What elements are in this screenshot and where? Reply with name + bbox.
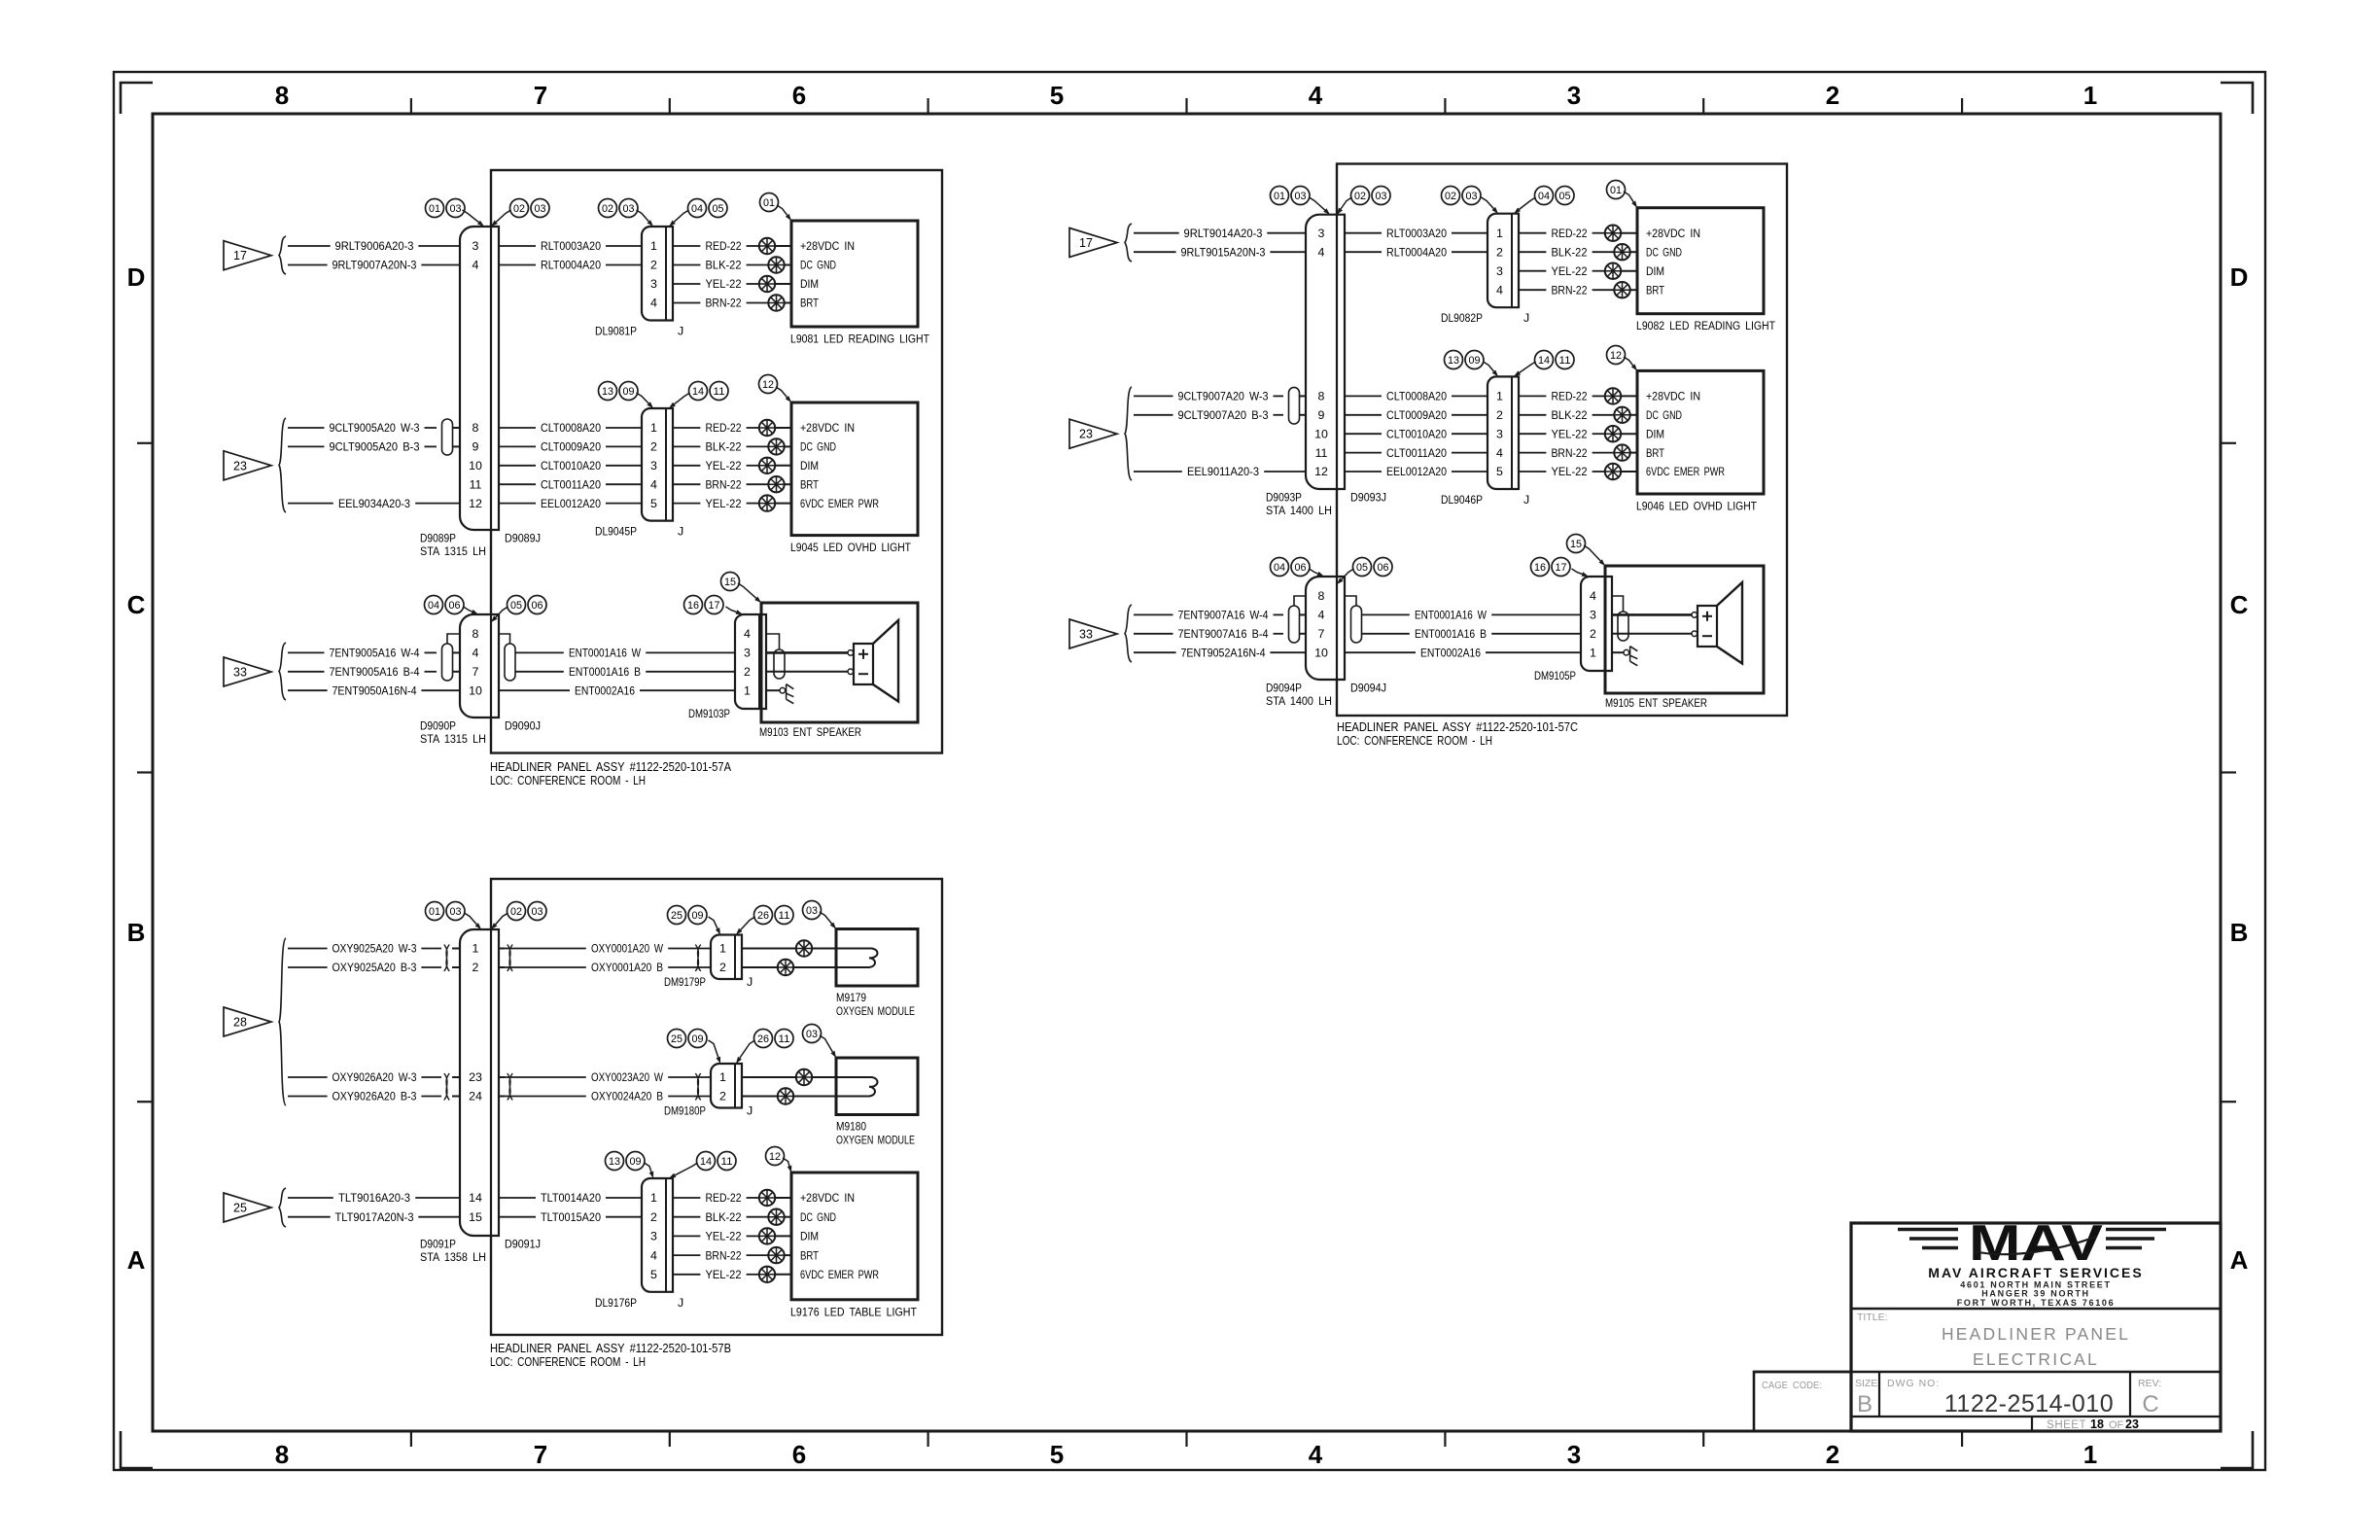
svg-text:17: 17 (709, 600, 720, 612)
svg-text:4: 4 (1318, 609, 1325, 622)
svg-text:4: 4 (472, 647, 479, 660)
svg-text:DIM: DIM (800, 277, 819, 291)
svg-text:D9091J: D9091J (505, 1238, 541, 1251)
svg-text:09: 09 (1469, 355, 1481, 367)
svg-text:01: 01 (1610, 185, 1622, 196)
svg-text:33: 33 (233, 666, 247, 680)
svg-text:HEADLINER PANEL ASSY #1122-252: HEADLINER PANEL ASSY #1122-2520-101-57B (490, 1341, 731, 1355)
svg-text:01: 01 (429, 906, 440, 918)
svg-text:16: 16 (687, 600, 699, 612)
svg-text:D: D (2230, 262, 2249, 292)
svg-text:OXY9025A20 W-3: OXY9025A20 W-3 (332, 942, 417, 956)
svg-text:BLK-22: BLK-22 (706, 440, 742, 454)
svg-text:6VDC EMER PWR: 6VDC EMER PWR (1646, 465, 1725, 478)
svg-text:11: 11 (1315, 446, 1328, 460)
svg-text:STA 1315 LH: STA 1315 LH (420, 544, 486, 558)
svg-text:11: 11 (779, 910, 790, 922)
svg-text:EEL9034A20-3: EEL9034A20-3 (338, 497, 410, 510)
svg-text:D9093P: D9093P (1266, 491, 1302, 505)
svg-text:13: 13 (609, 1156, 620, 1168)
svg-text:17: 17 (1556, 562, 1567, 574)
svg-text:5: 5 (650, 497, 657, 510)
svg-text:11: 11 (1559, 355, 1571, 367)
svg-text:DC GND: DC GND (800, 1210, 836, 1224)
svg-text:7: 7 (534, 81, 547, 110)
svg-text:23: 23 (469, 1070, 482, 1084)
svg-text:CAGE CODE:: CAGE CODE: (1762, 1381, 1822, 1391)
svg-text:L9046 LED OVHD LIGHT: L9046 LED OVHD LIGHT (1636, 500, 1757, 513)
svg-text:12: 12 (1314, 465, 1328, 478)
svg-text:DM9179P: DM9179P (664, 975, 706, 989)
svg-text:M9105 ENT SPEAKER: M9105 ENT SPEAKER (1605, 696, 1707, 710)
svg-text:BRT: BRT (800, 297, 819, 310)
svg-text:CLT0010A20: CLT0010A20 (541, 459, 601, 472)
svg-text:4: 4 (1590, 589, 1596, 603)
svg-text:OXY0001A20 B: OXY0001A20 B (591, 961, 663, 974)
svg-text:OXY9026A20 W-3: OXY9026A20 W-3 (332, 1070, 417, 1084)
svg-text:28: 28 (233, 1016, 247, 1030)
svg-text:BRN-22: BRN-22 (706, 1248, 742, 1262)
svg-text:J: J (1523, 493, 1529, 507)
svg-text:2: 2 (1496, 245, 1503, 259)
svg-text:C: C (2230, 590, 2249, 619)
svg-text:J: J (1523, 311, 1529, 325)
svg-text:BLK-22: BLK-22 (1552, 245, 1588, 259)
svg-text:C: C (127, 590, 146, 619)
svg-text:8: 8 (472, 627, 479, 641)
svg-text:05: 05 (1559, 191, 1571, 202)
svg-text:3: 3 (1567, 81, 1581, 110)
svg-text:D9090P: D9090P (420, 719, 456, 733)
svg-text:2: 2 (650, 259, 657, 272)
svg-text:3: 3 (1318, 227, 1325, 240)
svg-text:2: 2 (1826, 1440, 1839, 1469)
svg-text:BLK-22: BLK-22 (706, 1210, 742, 1224)
svg-text:3: 3 (744, 647, 751, 660)
svg-text:3: 3 (1496, 427, 1503, 440)
svg-text:BRT: BRT (800, 477, 819, 491)
svg-text:DIM: DIM (1646, 427, 1664, 440)
svg-text:1: 1 (650, 239, 657, 253)
svg-text:J: J (678, 525, 683, 539)
svg-text:MAV: MAV (1969, 1215, 2103, 1272)
svg-text:B: B (1857, 1391, 1872, 1417)
svg-text:D9089P: D9089P (420, 532, 456, 545)
svg-text:+28VDC IN: +28VDC IN (800, 239, 855, 253)
svg-text:OXY9026A20 B-3: OXY9026A20 B-3 (332, 1090, 417, 1103)
svg-text:CLT0011A20: CLT0011A20 (1386, 446, 1447, 460)
svg-text:CLT0009A20: CLT0009A20 (1386, 408, 1447, 422)
svg-text:3: 3 (650, 1230, 657, 1243)
svg-text:M9180: M9180 (836, 1120, 866, 1134)
svg-text:05: 05 (1356, 562, 1368, 574)
svg-text:LOC: CONFERENCE ROOM - LH: LOC: CONFERENCE ROOM - LH (1337, 733, 1492, 748)
svg-text:2: 2 (1590, 627, 1596, 641)
svg-text:EEL9011A20-3: EEL9011A20-3 (1187, 465, 1259, 478)
svg-text:23: 23 (2125, 1417, 2139, 1431)
svg-text:04: 04 (1274, 562, 1285, 574)
svg-text:OXYGEN MODULE: OXYGEN MODULE (836, 1004, 915, 1018)
svg-text:OXY0001A20 W: OXY0001A20 W (591, 942, 663, 956)
svg-text:RLT0004A20: RLT0004A20 (541, 259, 601, 272)
svg-text:ENT0001A16 W: ENT0001A16 W (1415, 609, 1487, 622)
svg-text:9CLT9005A20 B-3: 9CLT9005A20 B-3 (330, 440, 420, 454)
svg-text:1: 1 (719, 1070, 726, 1084)
svg-text:+28VDC IN: +28VDC IN (1646, 390, 1700, 403)
svg-text:ELECTRICAL: ELECTRICAL (1973, 1349, 2099, 1369)
svg-text:06: 06 (1378, 562, 1389, 574)
svg-text:DL9176P: DL9176P (595, 1296, 637, 1310)
svg-text:2: 2 (1496, 408, 1503, 422)
svg-text:9RLT9006A20-3: 9RLT9006A20-3 (335, 239, 414, 253)
svg-text:12: 12 (769, 1151, 781, 1163)
svg-text:06: 06 (1295, 562, 1307, 574)
svg-text:YEL-22: YEL-22 (1552, 427, 1588, 440)
svg-text:L9081 LED READING LIGHT: L9081 LED READING LIGHT (790, 332, 929, 346)
svg-text:03: 03 (1376, 191, 1387, 202)
svg-text:33: 33 (1079, 628, 1093, 642)
svg-text:D9094P: D9094P (1266, 682, 1302, 695)
svg-text:DIM: DIM (800, 459, 819, 472)
svg-text:02: 02 (510, 906, 522, 918)
svg-text:OF: OF (2109, 1419, 2124, 1431)
svg-text:A: A (127, 1245, 146, 1275)
svg-text:TLT0014A20: TLT0014A20 (541, 1191, 601, 1205)
svg-text:L9176 LED TABLE LIGHT: L9176 LED TABLE LIGHT (790, 1305, 917, 1318)
svg-text:9RLT9014A20-3: 9RLT9014A20-3 (1184, 227, 1263, 240)
svg-text:STA 1315 LH: STA 1315 LH (420, 732, 486, 746)
svg-text:03: 03 (532, 906, 543, 918)
svg-text:1: 1 (744, 683, 751, 697)
svg-text:5: 5 (650, 1268, 657, 1281)
svg-text:2: 2 (719, 961, 726, 974)
svg-text:3: 3 (472, 239, 479, 253)
svg-text:9: 9 (1318, 408, 1325, 422)
svg-text:7ENT9005A16 W-4: 7ENT9005A16 W-4 (330, 647, 420, 660)
svg-text:04: 04 (428, 600, 439, 612)
svg-text:+28VDC IN: +28VDC IN (1646, 227, 1700, 240)
svg-text:02: 02 (513, 203, 525, 215)
svg-text:1: 1 (1590, 646, 1596, 659)
svg-text:13: 13 (602, 386, 613, 398)
svg-text:2: 2 (744, 665, 751, 679)
svg-text:OXY0023A20 W: OXY0023A20 W (591, 1070, 663, 1084)
svg-text:18: 18 (2090, 1417, 2104, 1431)
svg-text:09: 09 (692, 1033, 704, 1045)
svg-text:8: 8 (472, 421, 479, 435)
svg-text:YEL-22: YEL-22 (706, 497, 742, 510)
svg-text:06: 06 (449, 600, 461, 612)
svg-text:25: 25 (671, 910, 682, 922)
svg-text:DM9180P: DM9180P (664, 1104, 706, 1118)
svg-text:11: 11 (714, 386, 725, 398)
svg-text:5: 5 (1050, 81, 1064, 110)
svg-text:13: 13 (1448, 355, 1459, 367)
svg-text:26: 26 (757, 1033, 769, 1045)
svg-text:4: 4 (1496, 283, 1503, 297)
svg-text:D9090J: D9090J (505, 719, 541, 733)
svg-text:11: 11 (470, 477, 482, 491)
svg-text:03: 03 (450, 906, 462, 918)
svg-text:03: 03 (1466, 191, 1478, 202)
svg-text:LOC: CONFERENCE ROOM - LH: LOC: CONFERENCE ROOM - LH (490, 773, 646, 787)
svg-text:3: 3 (1590, 609, 1596, 622)
svg-text:HEADLINER PANEL: HEADLINER PANEL (1942, 1324, 2130, 1344)
svg-text:CLT0008A20: CLT0008A20 (541, 421, 601, 435)
svg-text:10: 10 (469, 459, 482, 472)
svg-text:6: 6 (792, 81, 806, 110)
svg-text:05: 05 (713, 203, 724, 215)
svg-text:B: B (2230, 918, 2249, 947)
svg-text:STA 1400 LH: STA 1400 LH (1266, 694, 1332, 708)
svg-text:A: A (2230, 1245, 2249, 1275)
svg-text:J: J (747, 1104, 752, 1118)
svg-text:12: 12 (469, 497, 482, 510)
svg-text:RED-22: RED-22 (706, 421, 742, 435)
svg-text:2: 2 (719, 1090, 726, 1103)
svg-text:OXY9025A20 B-3: OXY9025A20 B-3 (332, 961, 417, 974)
svg-text:04: 04 (691, 203, 703, 215)
svg-text:4: 4 (650, 1248, 657, 1262)
svg-text:BLK-22: BLK-22 (1552, 408, 1588, 422)
svg-text:7ENT9007A16 W-4: 7ENT9007A16 W-4 (1178, 609, 1269, 622)
svg-text:5: 5 (1050, 1440, 1064, 1469)
svg-text:B: B (127, 918, 146, 947)
svg-text:03: 03 (623, 203, 635, 215)
svg-text:25: 25 (233, 1202, 247, 1215)
svg-text:L9082 LED READING LIGHT: L9082 LED READING LIGHT (1636, 319, 1775, 332)
svg-text:4: 4 (744, 627, 751, 641)
svg-text:11: 11 (721, 1156, 733, 1168)
svg-text:DC GND: DC GND (800, 259, 836, 272)
svg-text:9CLT9007A20 W-3: 9CLT9007A20 W-3 (1178, 390, 1269, 403)
svg-text:D: D (127, 262, 146, 292)
svg-text:8: 8 (1318, 589, 1325, 603)
svg-text:15: 15 (724, 577, 736, 588)
svg-text:03: 03 (535, 203, 546, 215)
svg-text:17: 17 (1079, 236, 1093, 250)
svg-text:J: J (747, 975, 752, 989)
svg-text:CLT0008A20: CLT0008A20 (1386, 390, 1447, 403)
svg-text:1: 1 (719, 942, 726, 956)
svg-text:SHEET: SHEET (2047, 1419, 2086, 1431)
svg-text:14: 14 (469, 1191, 482, 1205)
svg-text:1: 1 (650, 421, 657, 435)
svg-text:OXY0024A20 B: OXY0024A20 B (591, 1090, 663, 1103)
svg-text:YEL-22: YEL-22 (706, 1230, 742, 1243)
svg-text:3: 3 (650, 277, 657, 291)
svg-text:9RLT9015A20N-3: 9RLT9015A20N-3 (1181, 245, 1266, 259)
svg-text:7ENT9052A16N-4: 7ENT9052A16N-4 (1181, 646, 1266, 659)
svg-text:STA 1358 LH: STA 1358 LH (420, 1250, 486, 1264)
svg-text:BRN-22: BRN-22 (1552, 446, 1588, 460)
svg-text:ENT0002A16: ENT0002A16 (575, 683, 635, 697)
svg-text:D9089J: D9089J (505, 532, 541, 545)
svg-text:CLT0009A20: CLT0009A20 (541, 440, 601, 454)
svg-text:DIM: DIM (1646, 264, 1664, 278)
svg-text:C: C (2142, 1391, 2158, 1417)
svg-text:EEL0012A20: EEL0012A20 (541, 497, 601, 510)
svg-text:D9094J: D9094J (1350, 682, 1386, 695)
svg-text:RLT0004A20: RLT0004A20 (1386, 245, 1447, 259)
svg-text:DIM: DIM (800, 1230, 819, 1243)
svg-text:4: 4 (1318, 245, 1325, 259)
svg-text:03: 03 (1295, 191, 1307, 202)
svg-text:4: 4 (650, 297, 657, 310)
svg-text:DWG NO:: DWG NO: (1887, 1378, 1940, 1389)
svg-text:TITLE:: TITLE: (1857, 1312, 1888, 1323)
svg-text:L9045 LED OVHD LIGHT: L9045 LED OVHD LIGHT (790, 541, 911, 554)
svg-text:DL9046P: DL9046P (1441, 493, 1483, 507)
svg-text:9RLT9007A20N-3: 9RLT9007A20N-3 (332, 259, 417, 272)
svg-text:HEADLINER PANEL ASSY #1122-252: HEADLINER PANEL ASSY #1122-2520-101-57C (1337, 719, 1578, 734)
svg-text:BRT: BRT (1646, 446, 1664, 460)
svg-text:RED-22: RED-22 (706, 1191, 742, 1205)
svg-text:ENT0001A16 B: ENT0001A16 B (569, 665, 641, 679)
svg-text:RED-22: RED-22 (1552, 390, 1588, 403)
svg-text:2: 2 (472, 961, 479, 974)
svg-text:23: 23 (233, 459, 247, 472)
svg-text:DC GND: DC GND (1646, 408, 1682, 422)
svg-text:DC GND: DC GND (1646, 245, 1682, 259)
svg-text:D9091P: D9091P (420, 1238, 456, 1251)
svg-text:BRN-22: BRN-22 (1552, 283, 1588, 297)
svg-text:YEL-22: YEL-22 (706, 459, 742, 472)
svg-text:RLT0003A20: RLT0003A20 (541, 239, 601, 253)
svg-text:09: 09 (692, 910, 704, 922)
svg-text:M9103 ENT SPEAKER: M9103 ENT SPEAKER (759, 725, 861, 739)
svg-text:02: 02 (1354, 191, 1366, 202)
svg-text:HEADLINER PANEL ASSY #1122-252: HEADLINER PANEL ASSY #1122-2520-101-57A (490, 759, 731, 774)
svg-text:RED-22: RED-22 (1552, 227, 1588, 240)
svg-text:LOC: CONFERENCE ROOM - LH: LOC: CONFERENCE ROOM - LH (490, 1354, 646, 1369)
svg-text:MAV AIRCRAFT SERVICES: MAV AIRCRAFT SERVICES (1928, 1265, 2143, 1280)
svg-text:03: 03 (806, 905, 818, 917)
svg-text:DC GND: DC GND (800, 440, 836, 454)
svg-text:1: 1 (472, 942, 479, 956)
svg-text:14: 14 (1538, 355, 1550, 367)
svg-text:01: 01 (429, 203, 440, 215)
svg-text:1: 1 (2083, 1440, 2097, 1469)
svg-text:3: 3 (650, 459, 657, 472)
svg-text:J: J (678, 1296, 683, 1310)
svg-text:ENT0001A16 B: ENT0001A16 B (1415, 627, 1487, 641)
svg-text:7: 7 (472, 665, 479, 679)
svg-text:16: 16 (1534, 562, 1546, 574)
svg-text:05: 05 (510, 600, 522, 612)
svg-text:BRN-22: BRN-22 (706, 297, 742, 310)
svg-text:D9093J: D9093J (1350, 491, 1386, 505)
svg-text:1: 1 (2083, 81, 2097, 110)
svg-text:RLT0003A20: RLT0003A20 (1386, 227, 1447, 240)
svg-text:2: 2 (650, 1210, 657, 1224)
svg-text:9CLT9007A20 B-3: 9CLT9007A20 B-3 (1178, 408, 1269, 422)
svg-text:12: 12 (762, 379, 774, 391)
svg-text:10: 10 (1314, 646, 1328, 659)
svg-text:2: 2 (650, 440, 657, 454)
svg-text:REV:: REV: (2138, 1378, 2161, 1389)
svg-text:RED-22: RED-22 (706, 239, 742, 253)
svg-text:03: 03 (450, 203, 462, 215)
svg-text:EEL0012A20: EEL0012A20 (1386, 465, 1447, 478)
svg-text:10: 10 (469, 683, 482, 697)
svg-text:14: 14 (692, 386, 704, 398)
svg-text:9: 9 (472, 440, 479, 454)
svg-text:15: 15 (469, 1210, 482, 1224)
svg-text:CLT0010A20: CLT0010A20 (1386, 427, 1447, 440)
svg-text:YEL-22: YEL-22 (1552, 465, 1588, 478)
svg-text:M9179: M9179 (836, 991, 866, 1004)
svg-text:6VDC EMER PWR: 6VDC EMER PWR (800, 497, 879, 510)
svg-text:8: 8 (275, 81, 289, 110)
svg-text:ENT0001A16 W: ENT0001A16 W (569, 647, 641, 660)
svg-text:DL9082P: DL9082P (1441, 311, 1483, 325)
svg-text:9CLT9005A20 W-3: 9CLT9005A20 W-3 (330, 421, 420, 435)
svg-text:09: 09 (623, 386, 635, 398)
svg-text:1: 1 (650, 1191, 657, 1205)
svg-text:1122-2514-010: 1122-2514-010 (1944, 1390, 2114, 1417)
svg-text:J: J (678, 325, 683, 338)
svg-text:04: 04 (1538, 191, 1550, 202)
svg-text:DL9081P: DL9081P (595, 325, 637, 338)
svg-text:YEL-22: YEL-22 (706, 277, 742, 291)
svg-text:7ENT9007A16 B-4: 7ENT9007A16 B-4 (1178, 627, 1269, 641)
svg-text:ENT0002A16: ENT0002A16 (1420, 646, 1481, 659)
svg-text:25: 25 (671, 1033, 682, 1045)
svg-text:5: 5 (1496, 465, 1503, 478)
svg-text:BLK-22: BLK-22 (706, 259, 742, 272)
svg-text:+28VDC IN: +28VDC IN (800, 1191, 855, 1205)
svg-text:17: 17 (233, 249, 247, 262)
svg-text:DM9103P: DM9103P (688, 707, 730, 720)
svg-text:26: 26 (757, 910, 769, 922)
svg-text:6VDC EMER PWR: 6VDC EMER PWR (800, 1268, 879, 1281)
svg-text:2: 2 (1826, 81, 1839, 110)
svg-text:DM9105P: DM9105P (1534, 669, 1576, 682)
svg-text:03: 03 (806, 1029, 818, 1040)
svg-text:01: 01 (1274, 191, 1285, 202)
svg-text:SIZE: SIZE (1855, 1378, 1877, 1389)
svg-text:3: 3 (1567, 1440, 1581, 1469)
svg-text:CLT0011A20: CLT0011A20 (541, 477, 601, 491)
svg-text:DL9045P: DL9045P (595, 525, 637, 539)
svg-text:BRT: BRT (800, 1248, 819, 1262)
svg-text:06: 06 (532, 600, 543, 612)
svg-text:02: 02 (1445, 191, 1456, 202)
svg-text:STA 1400 LH: STA 1400 LH (1266, 504, 1332, 517)
svg-text:8: 8 (1318, 390, 1325, 403)
svg-text:HANGER 39 NORTH: HANGER 39 NORTH (1981, 1289, 2090, 1299)
svg-text:FORT WORTH, TEXAS 76106: FORT WORTH, TEXAS 76106 (1957, 1298, 2116, 1308)
svg-text:BRT: BRT (1646, 283, 1664, 297)
svg-text:15: 15 (1570, 539, 1582, 550)
svg-text:4: 4 (472, 259, 479, 272)
svg-text:TLT0015A20: TLT0015A20 (541, 1210, 601, 1224)
svg-text:TLT9017A20N-3: TLT9017A20N-3 (335, 1210, 414, 1224)
svg-text:4: 4 (650, 477, 657, 491)
svg-text:09: 09 (630, 1156, 642, 1168)
svg-text:1: 1 (1496, 227, 1503, 240)
svg-text:01: 01 (763, 197, 775, 209)
svg-text:+28VDC IN: +28VDC IN (800, 421, 855, 435)
svg-text:8: 8 (275, 1440, 289, 1469)
svg-text:BRN-22: BRN-22 (706, 477, 742, 491)
svg-text:7ENT9050A16N-4: 7ENT9050A16N-4 (332, 683, 417, 697)
svg-text:7ENT9005A16 B-4: 7ENT9005A16 B-4 (330, 665, 420, 679)
svg-text:1: 1 (1496, 390, 1503, 403)
svg-text:7: 7 (1318, 627, 1325, 641)
svg-text:YEL-22: YEL-22 (1552, 264, 1588, 278)
